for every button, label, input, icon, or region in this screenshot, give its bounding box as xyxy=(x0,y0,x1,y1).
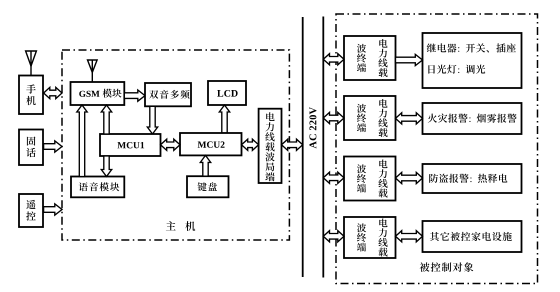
arrow 终端T1->继电器箱 xyxy=(396,54,423,65)
box 防盗报警:热释电 xyxy=(423,164,522,193)
box 键盘 (keypad) xyxy=(187,176,229,197)
box LCD xyxy=(208,81,246,105)
arrow AC线<->终端T2 xyxy=(323,112,344,123)
arrow 终端T2<->火灾报警箱 xyxy=(396,113,423,124)
box 遥控 (remote) xyxy=(19,194,43,227)
wire AC power line L1 xyxy=(302,17,304,277)
box 火灾报警:烟雾报警 xyxy=(423,103,522,134)
arrow MCU1->GSM模块 xyxy=(101,105,111,134)
box 继电器:开关、插座/日光灯:调光 xyxy=(423,33,522,88)
box GSM模块 xyxy=(71,82,125,105)
arrow 手机<->主机 xyxy=(44,87,62,98)
arrow GSM模块->双音多频 xyxy=(124,90,145,101)
arrow MCU1->语音模块 xyxy=(101,156,111,177)
arrow 遥控->主机 xyxy=(44,204,62,215)
wire/arrow 固话->主机 xyxy=(44,141,62,152)
arrow 电力线载波局端<->AC线 xyxy=(282,139,303,150)
antenna ANT2 (GSM module) xyxy=(88,60,98,82)
arrow 终端T4<->其它设施箱 xyxy=(396,231,423,242)
box 电力线载波终端 T2 xyxy=(344,96,396,140)
box 电力线载波终端 T1 xyxy=(344,36,396,80)
arrow 终端T3<->防盗报警箱 xyxy=(396,172,423,183)
box 固话 (landline) xyxy=(19,130,43,166)
arrow AC线<->终端T1 xyxy=(323,54,344,65)
label 主机 xyxy=(166,221,195,231)
label AC 220V xyxy=(309,107,316,148)
box 双音多频 (DTMF) xyxy=(145,83,191,106)
box 电力线载波终端 T4 xyxy=(344,217,396,258)
arrow 语音模块->GSM模块 xyxy=(77,105,87,177)
box MCU2 xyxy=(180,133,242,155)
arrow 键盘->MCU2 xyxy=(200,155,210,176)
arrow 双音多频->MCU1 xyxy=(147,106,157,134)
box 其它被控家电设施 xyxy=(423,221,522,252)
arrow MCU2<->电力线载波局端 xyxy=(242,139,259,150)
wire AC power line L2 xyxy=(322,17,324,278)
arrow AC线<->终端T4 xyxy=(323,231,344,242)
arrow AC线<->终端T3 xyxy=(323,172,344,183)
arrow MCU2->LCD xyxy=(219,105,229,133)
arrow MCU1<->MCU2 xyxy=(161,139,181,150)
box 手机 (mobile phone) xyxy=(19,76,43,115)
box 语音模块 (voice module) xyxy=(71,177,124,198)
box 电力线载波局端 (PLC head-end) xyxy=(259,109,282,183)
label 被控制对象 xyxy=(420,262,474,272)
dashed box 被控制对象 (controlled objects) xyxy=(336,14,538,284)
box 电力线载波终端 T3 xyxy=(344,157,396,201)
box MCU1 xyxy=(100,134,161,156)
dashed box 主机 (host unit) xyxy=(62,50,289,240)
antenna ANT1 (mobile phone) xyxy=(26,51,37,76)
